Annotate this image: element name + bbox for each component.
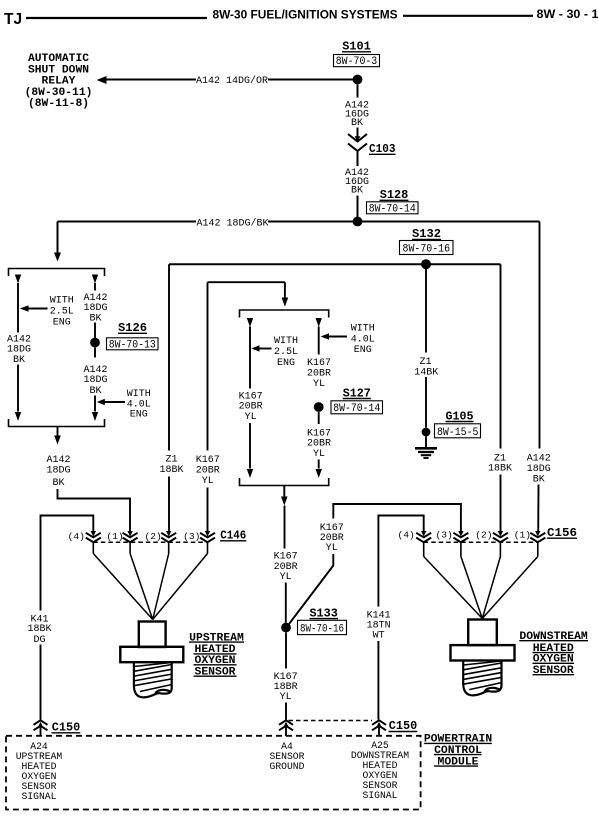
connector C146 pin 3 [200,531,215,542]
svg-text:BK: BK [351,118,363,129]
svg-text:BK: BK [13,355,25,366]
wire K167 to C146 pin 3 [207,488,209,532]
svg-text:WITH: WITH [351,323,375,334]
label K167 20BR YL (to C146) [196,455,220,487]
wire C103 to S128 [357,151,359,166]
wire K167 to S133 [284,506,286,549]
arrow middle 2.5L bottom [247,469,253,478]
middle option box top edge [240,310,329,318]
label K41 18BK DG [27,615,51,646]
svg-text:(8W-30-11): (8W-30-11) [25,87,93,99]
wire Z1 bus [169,263,501,265]
connector C146 pin 1 [123,531,138,542]
C146 dashed connector line [93,541,207,543]
label K167 20BR YL (4.0L upper) [307,358,331,390]
arrow middle 4.0L bottom [316,469,322,478]
splice S133 label [309,606,338,620]
arrow below left option box [54,436,61,445]
label A142 16DG BK 2 [345,168,369,197]
splice S128 [353,217,363,227]
svg-text:A142 18DG/BK: A142 18DG/BK [196,218,268,230]
wire K167 from C156 pin 3 [333,504,461,532]
pin A25 label [351,740,409,801]
label WITH 4.0L ENG [127,389,151,420]
wire down to left option box [57,222,59,253]
label Z1 18BK (right) [488,453,512,474]
svg-text:(3): (3) [183,531,200,542]
label WITH 4.0L ENG (middle) [351,323,375,356]
arrow 2.5L branch bottom [15,412,21,421]
svg-text:8W - 30 - 1: 8W - 30 - 1 [537,7,598,21]
upstream sensor flange [120,647,183,662]
connector C146 pin 2 [161,531,176,542]
svg-text:(2): (2) [145,531,162,542]
wire K141 to C150 [377,641,379,720]
connector C156 pin 4 [416,531,431,542]
svg-text:YL: YL [313,449,325,460]
arrow branch 4.0L top [92,275,98,284]
svg-text:8W-70-14: 8W-70-14 [333,403,380,415]
svg-text:ENG: ENG [277,358,295,369]
wire A142 18DG/BK [58,221,540,223]
wire A142 14DG/OR [107,79,358,81]
wire into middle option box [284,282,286,297]
S128 reference box [367,202,419,216]
label C103 [369,142,396,156]
svg-text:(3): (3) [436,530,453,541]
upstream heated oxygen sensor body [139,622,166,648]
svg-text:18DG: 18DG [7,344,31,355]
svg-text:SIGNAL: SIGNAL [363,790,398,801]
S127 reference box [331,401,383,415]
splice S128 label [380,188,409,202]
arrow WITH 4.0L [97,399,125,405]
label powertrain control module [424,734,493,769]
downstream heated oxygen sensor body [468,620,497,646]
svg-text:(4): (4) [68,531,85,542]
wire into S128 [357,196,359,222]
label WITH 2.5L ENG [50,295,74,328]
svg-text:BK: BK [533,474,545,485]
C146 pin tails [93,542,207,553]
label A142 18DG BK (4.0L branch upper) [83,293,107,324]
svg-text:8W-70-13: 8W-70-13 [109,339,156,351]
svg-text:BK: BK [89,386,101,397]
connector C150 (A4) [279,720,293,736]
wire K167 18BR YL [285,632,287,668]
svg-text:4.0L: 4.0L [351,334,375,345]
label A142 18DG BK (2.5L branch) [7,335,31,366]
label K167 20BR YL (below S127) [307,428,331,460]
connector C150 (K41) [34,720,48,736]
downstream sensor fan-in [424,557,538,619]
wire A142 to C156 pin 1 [539,222,541,449]
label Z1 18BK (left) [159,455,183,476]
svg-text:8W-70-16: 8W-70-16 [300,624,344,636]
upstream sensor threads [134,662,172,697]
svg-text:YL: YL [326,543,338,554]
arrow into left option box [54,253,61,262]
svg-text:YL: YL [280,692,292,703]
arrow WITH 2.5L (middle) [251,345,271,351]
wire into G105 [425,377,427,428]
S126 reference box [107,338,159,352]
arrow WITH 2.5L [20,305,48,311]
label A142 18DG BK (below S126) [83,365,107,397]
svg-text:20BR: 20BR [307,439,331,450]
connector C156 pin 3 [453,531,468,542]
svg-text:YL: YL [280,572,292,583]
arrow to automatic shut down relay [97,76,107,84]
label WITH 2.5L ENG (middle) [274,336,298,369]
wire K167 4.0L upper [318,327,320,355]
svg-text:2.5L: 2.5L [274,347,298,358]
svg-text:SIGNAL: SIGNAL [22,791,57,802]
wire Z1 right drop [500,264,502,448]
svg-text:RELAY: RELAY [42,76,76,88]
svg-text:YL: YL [245,412,257,423]
wire Z1 14BK [425,269,427,353]
splice S126 [90,338,100,348]
connector C146 pin 4 [86,531,101,542]
svg-text:18DG: 18DG [46,465,70,476]
svg-text:18BK: 18BK [159,465,183,476]
upstream sensor fan-in [93,554,207,620]
G105 junction [422,428,431,437]
svg-text:8W-15-5: 8W-15-5 [437,427,479,439]
wire K141 from C156 pin 4 [378,516,423,607]
wire to ground [425,436,427,447]
C150 dashed connector line [289,720,373,722]
powertrain control module box [6,736,421,810]
arrow below middle option box [281,497,288,506]
svg-text:ENG: ENG [354,345,372,356]
wire out of left option box [57,427,59,436]
svg-text:2.5L: 2.5L [50,306,74,317]
C156 dashed connector line [424,541,538,543]
svg-text:AUTOMATIC: AUTOMATIC [28,53,89,65]
label K167 20BR YL (downstream) [320,523,344,554]
G105 reference box [435,424,481,439]
downstream sensor thread hatching [463,661,501,690]
left option box top edge [9,269,105,277]
label C156 [547,526,577,540]
wire 4.0L branch lower [94,396,96,412]
svg-text:ENG: ENG [130,409,148,420]
connector C156 pin 1 [530,531,545,542]
wire K41 to C150 [40,645,42,720]
wire A142 into C156 [537,485,539,532]
connector C103 [348,134,367,151]
wire K167 jog to middle box [208,281,285,283]
label K141 18TN WT [367,610,391,641]
svg-text:8W-30 FUEL/IGNITION SYSTEMS: 8W-30 FUEL/IGNITION SYSTEMS [213,7,398,21]
wire A142 16DG BK upper [357,84,359,97]
label A142 18DG BK (to C146) [46,455,70,489]
wire K167 into C150 [285,703,287,720]
svg-text:20BR: 20BR [307,368,331,379]
label C150 left [52,720,81,734]
wire into S126 [94,323,96,339]
left option box bottom edge [9,419,105,427]
svg-text:18BK: 18BK [488,464,512,475]
arrow 4.0L branch bottom [92,412,98,421]
pin A24 label [16,741,63,802]
label upstream heated oxygen sensor [189,632,244,678]
svg-text:K167: K167 [307,358,331,369]
arrow middle 2.5L top [247,318,253,327]
wire Z1 right lower [500,475,502,532]
splice S132 label [412,227,441,241]
header rule left [26,17,207,19]
label C150 right [389,719,418,733]
label A142 16DG BK [345,101,369,130]
wire A142 to C146 pin 1 [58,489,131,532]
svg-text:GROUND: GROUND [270,761,305,772]
svg-text:8W-70-16: 8W-70-16 [403,244,451,256]
label K167 20BR YL (to S133) [274,552,298,584]
svg-text:(1): (1) [514,530,531,541]
svg-text:(4): (4) [397,530,414,541]
wire K167 left drop [207,282,209,450]
ground symbol G105 [415,448,437,458]
svg-text:14BK: 14BK [414,367,438,378]
wire 4.0L branch lower (middle) [318,460,320,469]
svg-text:A142 14DG/OR: A142 14DG/OR [196,75,268,87]
header rule right [403,15,533,17]
wire 2.5L branch lower [17,365,19,412]
svg-text:TJ: TJ [4,11,22,28]
downstream sensor threads [463,661,501,696]
connector C150 (A25) [372,720,386,736]
S132 reference box [400,241,454,256]
wire 2.5L branch upper [17,283,19,333]
arrow middle 4.0L top [316,318,322,327]
wire below S126 [94,347,96,357]
label K167 18BR YL [274,672,298,703]
wire 2.5L branch lower [249,423,251,469]
wire K41 jog [41,516,94,611]
ground G105 label [446,409,474,423]
label Z1 14BK [414,357,438,378]
svg-text:18DG: 18DG [83,375,107,386]
svg-text:BK: BK [52,478,64,489]
wire Z1 left drop [168,264,170,450]
wire below S127 [318,412,320,424]
svg-text:SHUT DOWN: SHUT DOWN [28,64,89,76]
splice S133 [281,623,291,633]
svg-text:20BR: 20BR [196,465,220,476]
svg-text:8W-70-14: 8W-70-14 [369,203,416,215]
splice S101 [353,75,363,85]
S133 reference box [298,620,347,635]
splice S127 [314,402,324,412]
svg-text:8W-70-3: 8W-70-3 [336,56,378,68]
downstream sensor flange [451,645,515,660]
label K167 20BR YL (2.5L branch) [239,391,263,423]
label C146 [220,529,246,543]
svg-text:(1): (1) [106,531,123,542]
label A142 18DG BK (downstream) [527,453,551,485]
svg-text:WITH: WITH [50,295,74,306]
middle option box bottom edge [240,478,329,486]
splice S127 label [343,386,371,400]
automatic shut down relay label [25,53,93,110]
splice S101 label [342,40,371,54]
svg-text:WITH: WITH [274,336,298,347]
connector C156 pin 2 [493,531,508,542]
arrow branch 2.5L top [15,275,21,284]
arrow into middle option box [282,298,289,307]
svg-text:BK: BK [351,186,363,197]
pin A4 label [270,741,305,772]
wire out of middle option box [283,486,285,497]
svg-text:YL: YL [202,476,214,487]
svg-text:A142: A142 [527,453,551,464]
svg-text:18DG: 18DG [527,464,551,475]
svg-text:(8W-11-8): (8W-11-8) [28,98,89,110]
svg-text:WT: WT [373,631,385,642]
upstream sensor thread hatching [134,663,172,692]
svg-text:18BK: 18BK [27,624,51,635]
svg-text:YL: YL [313,379,325,390]
C156 pin tails [424,542,538,556]
svg-text:ENG: ENG [53,317,71,328]
wire to C103 [357,128,359,139]
wire K167 2.5L branch [249,327,251,389]
svg-text:DG: DG [33,635,45,646]
wire 4.0L branch upper [94,283,96,291]
wire Z1 left lower [168,477,170,532]
wire into S133 [285,583,287,623]
splice S126 label [118,321,147,335]
arrow WITH 4.0L (middle) [321,333,348,339]
splice S132 [421,259,431,269]
S101 reference box [334,55,380,69]
wire diagonal into S133 [289,554,333,624]
label downstream heated oxygen sensor [519,631,588,677]
svg-text:(2): (2) [475,530,492,541]
